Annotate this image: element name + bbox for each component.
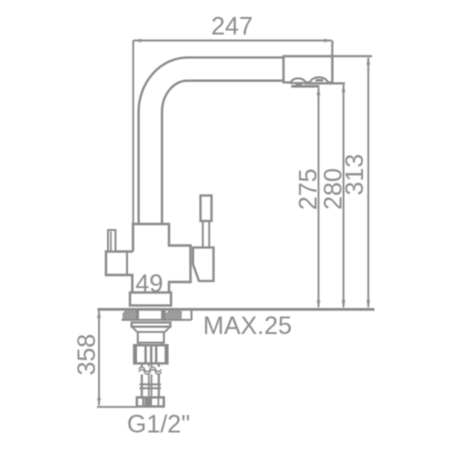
spout head top extension line to 313 — [284, 55, 373, 57]
svg-text:313: 313 — [341, 154, 369, 196]
spout inner curve — [162, 81, 284, 224]
left knob inner line — [110, 232, 112, 252]
right handle stem — [202, 221, 204, 248]
hatch left block — [117, 310, 143, 320]
faucet body outline — [106, 224, 191, 293]
right handle base — [193, 248, 214, 282]
extension line bottom (y=407) — [97, 406, 137, 408]
aerator plate left — [291, 85, 319, 88]
svg-text:358: 358 — [73, 334, 101, 376]
section above nut — [137, 332, 165, 345]
trapezoid transition — [132, 327, 170, 332]
dimension 280 line — [343, 85, 345, 308]
break squiggle lines — [139, 367, 161, 371]
shank wall right — [161, 310, 166, 320]
svg-text:G1/2": G1/2" — [127, 411, 190, 439]
right knob — [201, 196, 212, 222]
slab right edge — [191, 308, 193, 320]
dimension 275 line — [318, 88, 320, 308]
nut flats — [144, 346, 146, 362]
aerator small dome — [291, 78, 306, 83]
shank wall left — [135, 310, 139, 320]
threaded shank — [142, 363, 159, 397]
extension line right (x=332) — [331, 41, 333, 83]
aerator small dome bar — [296, 84, 303, 86]
svg-text:247: 247 — [211, 13, 253, 41]
extension line left (x=133) — [132, 41, 134, 225]
dimension 313 line — [367, 58, 369, 308]
left knob — [108, 230, 116, 252]
bottom fitting — [137, 397, 164, 406]
nut — [134, 345, 167, 363]
aerator big dome — [310, 77, 328, 83]
collar rings — [140, 383, 161, 385]
base flange — [130, 293, 171, 306]
fitting dark block — [145, 398, 150, 406]
spout outer curve — [139, 58, 284, 225]
spout head — [284, 56, 333, 82]
slab bottom line — [122, 319, 192, 321]
dimension 247 left arrow — [133, 39, 141, 43]
break squiggle mask — [137, 367, 163, 375]
washer under counter — [132, 323, 171, 327]
dimension 358 line — [98, 311, 100, 406]
countertop line — [98, 308, 375, 311]
dimension 247 line — [133, 40, 332, 42]
aerator big dome bar — [315, 79, 323, 82]
aerator plate right / extension 280 — [305, 82, 345, 84]
hatch right block — [161, 310, 190, 320]
svg-text:MAX.25: MAX.25 — [203, 312, 292, 340]
fitting inner lines — [142, 398, 144, 406]
svg-text:275: 275 — [295, 168, 323, 210]
svg-text:49: 49 — [135, 270, 163, 298]
dimension 247 right arrow — [324, 39, 332, 43]
body left arm inner line — [126, 252, 128, 275]
